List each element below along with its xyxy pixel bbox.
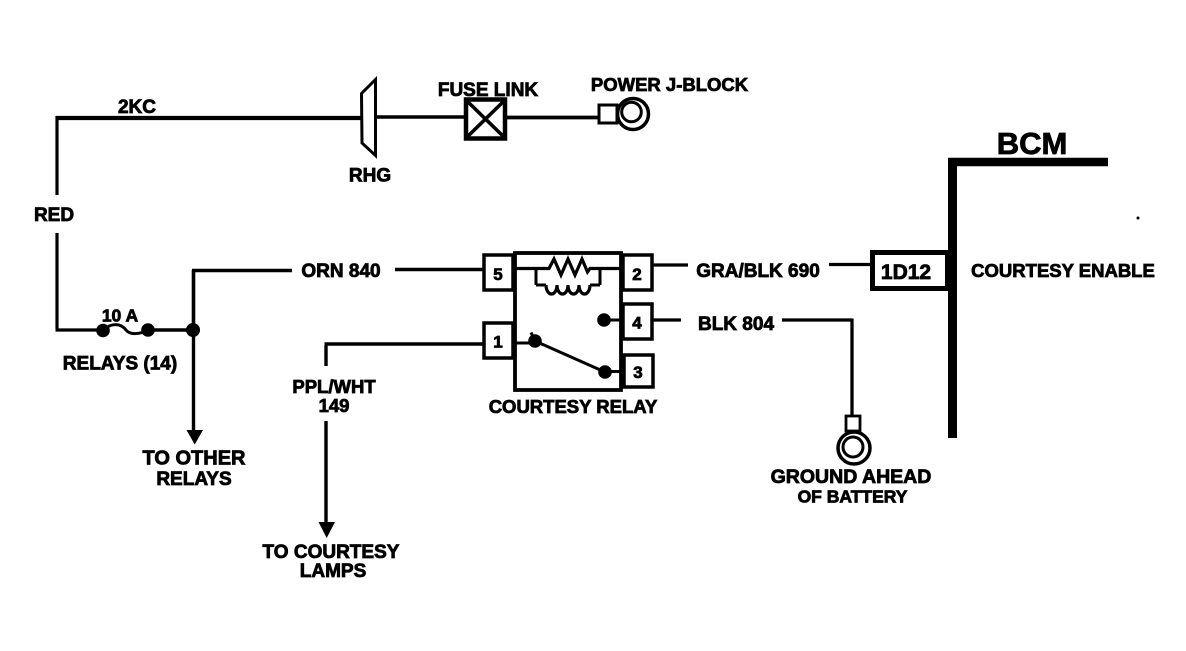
label GRA/BLK 690 <box>696 261 820 282</box>
wire pin2 to GRA/BLK 690 <box>652 263 688 266</box>
svg-text:3: 3 <box>633 363 642 382</box>
switch contact dot pin4 <box>597 313 611 327</box>
svg-text:2: 2 <box>632 265 641 284</box>
wire GRA/BLK 690 to 1D12 <box>829 263 871 266</box>
svg-text:1: 1 <box>493 333 502 352</box>
wire ORN 840 to relay pin 5 <box>395 268 484 272</box>
connector 1D12 box <box>873 253 948 289</box>
pin 5 box <box>484 255 513 290</box>
svg-text:COURTESY ENABLE: COURTESY ENABLE <box>971 260 1155 281</box>
wire PPL/WHT corner to relay pin 1 <box>325 344 485 366</box>
stray scan speck <box>1137 217 1140 220</box>
fuse link box with X <box>466 100 505 139</box>
wire RHG to fuse link <box>377 115 464 118</box>
svg-text:RED: RED <box>34 205 74 226</box>
svg-text:TO OTHER: TO OTHER <box>143 448 247 470</box>
svg-text:RELAYS: RELAYS <box>156 469 231 490</box>
wire RED vertical (lower segment) to corner <box>56 233 105 330</box>
svg-text:149: 149 <box>319 395 350 416</box>
svg-text:1D12: 1D12 <box>881 261 931 284</box>
svg-text:TO COURTESY: TO COURTESY <box>263 542 400 563</box>
wire PPL/WHT down to arrow <box>324 421 327 523</box>
label RHG <box>349 166 391 187</box>
relay coil inductor (bumps) <box>536 268 600 294</box>
svg-text:BCM: BCM <box>997 126 1068 161</box>
svg-text:ORN 840: ORN 840 <box>301 261 380 282</box>
wire junction up to ORN 840 corner <box>192 270 292 330</box>
BCM thick horizontal bar <box>948 158 1108 167</box>
arrow to courtesy lamps <box>319 522 336 538</box>
svg-text:GRA/BLK 690: GRA/BLK 690 <box>696 261 820 282</box>
label BLK 804 <box>698 314 774 335</box>
wire fuse to junction <box>148 328 193 331</box>
pin 2 box <box>623 255 652 290</box>
label RED <box>34 205 74 226</box>
svg-text:BLK 804: BLK 804 <box>698 314 774 335</box>
wire RED vertical (upper segment) <box>55 116 58 195</box>
svg-text:GROUND AHEAD: GROUND AHEAD <box>771 466 932 488</box>
wire pin3 stub <box>605 370 624 373</box>
svg-text:RELAYS (14): RELAYS (14) <box>63 354 177 375</box>
svg-text:POWER J-BLOCK: POWER J-BLOCK <box>591 74 749 95</box>
svg-text:RHG: RHG <box>349 166 391 187</box>
switch contact dot pin3 <box>598 365 612 379</box>
svg-text:LAMPS: LAMPS <box>300 561 367 582</box>
arrow to other relays <box>187 430 204 445</box>
wire 2KC horizontal feed <box>56 116 362 120</box>
svg-text:PPL/WHT: PPL/WHT <box>292 376 376 397</box>
label TO COURTESY LAMPS <box>263 542 400 582</box>
label PPL/WHT 149 <box>292 376 376 416</box>
relay coil resistor (zigzag) <box>513 259 623 275</box>
fuse 10A left dot <box>96 324 110 338</box>
switch contact dot pin1 <box>528 334 542 348</box>
label RELAYS (14) <box>63 354 177 375</box>
label 2KC <box>118 97 156 118</box>
connector RHG <box>362 80 376 156</box>
label BCM <box>997 126 1068 161</box>
wire pin1 stub <box>513 342 535 345</box>
label TO OTHER RELAYS <box>143 448 247 491</box>
wire BLK 804 to ground drop <box>782 319 852 417</box>
wire pin4 to BLK 804 <box>652 318 681 321</box>
pin 4 box <box>623 304 652 339</box>
wire junction down to arrow <box>192 330 195 431</box>
svg-text:10 A: 10 A <box>102 306 139 326</box>
fuse 10A element curve <box>103 325 148 334</box>
switch arm diagonal <box>531 333 606 373</box>
wire pin4 stub <box>604 319 623 322</box>
svg-text:5: 5 <box>493 265 502 284</box>
label GROUND AHEAD OF BATTERY <box>771 466 932 507</box>
label COURTESY ENABLE <box>971 260 1155 281</box>
svg-text:2KC: 2KC <box>118 97 156 118</box>
label ORN 840 <box>301 261 380 282</box>
junction node dot <box>186 323 200 337</box>
pin 1 box <box>484 323 513 358</box>
label POWER J-BLOCK <box>591 74 749 95</box>
BCM thick vertical bar <box>948 158 957 438</box>
svg-text:4: 4 <box>632 314 642 333</box>
label COURTESY RELAY <box>489 396 658 417</box>
label FUSE LINK <box>438 80 539 101</box>
wire fuse link to power j-block <box>505 116 599 120</box>
label 10 A <box>102 306 139 326</box>
terminal ground ring <box>838 416 870 464</box>
relay body COURTESY RELAY <box>515 253 621 390</box>
fuse 10A right dot <box>141 323 155 337</box>
pin 3 box <box>624 355 653 387</box>
svg-text:COURTESY RELAY: COURTESY RELAY <box>489 396 658 417</box>
terminal POWER J-BLOCK ring <box>599 99 649 130</box>
svg-text:OF BATTERY: OF BATTERY <box>798 487 908 507</box>
